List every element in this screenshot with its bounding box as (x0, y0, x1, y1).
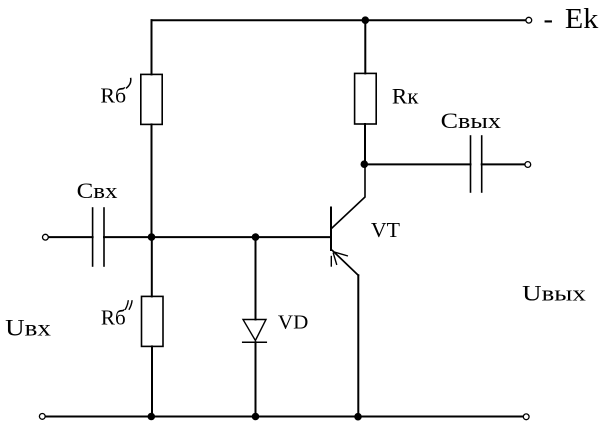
diode VD (243, 320, 266, 341)
wire: diode to bottom rail (255, 342, 257, 416)
svg-text:Rк: Rк (392, 84, 419, 109)
svg-text:VD: VD (278, 312, 308, 334)
svg-text:Свых: Свых (441, 108, 501, 133)
svg-text:Uвых: Uвых (522, 280, 586, 305)
wire: node A down to Rб'' (151, 237, 153, 296)
wire: Свх to node A (104, 236, 152, 238)
wire: Свых to output terminal (482, 163, 525, 165)
node D (collector junction dot) (361, 160, 369, 168)
wire: Rк to collector node D (364, 124, 366, 164)
bottom-left terminal (39, 414, 45, 420)
wire: top rail to Rк (364, 20, 366, 73)
resistor Rб'' (142, 296, 164, 346)
terminal -Ek (526, 17, 532, 23)
transistor VT emitter lead (332, 251, 358, 276)
svg-text:Ek: Ek (565, 4, 599, 35)
wire: input terminal to Свх (49, 236, 93, 238)
node F (Rб'' rail junction dot) (148, 413, 156, 421)
wire: rail corner down to Rб' (151, 20, 153, 74)
svg-text:Свх: Свх (77, 178, 118, 203)
wire: emitter down to bottom rail (357, 275, 359, 416)
top supply rail (152, 19, 529, 21)
bottom-right terminal (523, 414, 529, 420)
input terminal (43, 234, 49, 240)
svg-text:VT: VT (371, 218, 400, 242)
transistor VT collector lead (332, 164, 365, 228)
node A (base junction dot) (148, 233, 156, 241)
node B (diode tap dot) (252, 233, 260, 241)
transistor VT body bar (330, 208, 332, 251)
transistor VT emitter arrow barbs (335, 252, 348, 256)
wire: base (152, 236, 331, 238)
wire: Rб'' to bottom rail (151, 346, 153, 416)
bottom rail (46, 416, 527, 418)
node G (diode rail junction dot) (252, 413, 260, 421)
node C (top rail junction dot) (362, 16, 370, 24)
svg-text:Uвх: Uвх (5, 315, 51, 340)
resistor Rк (355, 73, 377, 124)
resistor Rб' (141, 74, 162, 124)
svg-text:Rб: Rб (100, 84, 126, 108)
wire: Rб' bottom to node A (151, 124, 153, 237)
svg-text:Rб: Rб (101, 306, 126, 330)
wire: node D to Свых (365, 163, 471, 165)
output terminal (525, 162, 531, 168)
svg-text:-: - (544, 4, 554, 35)
capacitor Свых (470, 136, 472, 192)
node E (emitter-rail junction dot) (354, 413, 362, 421)
wire: node B down to diode VD (255, 237, 257, 319)
capacitor Свх (92, 208, 94, 266)
